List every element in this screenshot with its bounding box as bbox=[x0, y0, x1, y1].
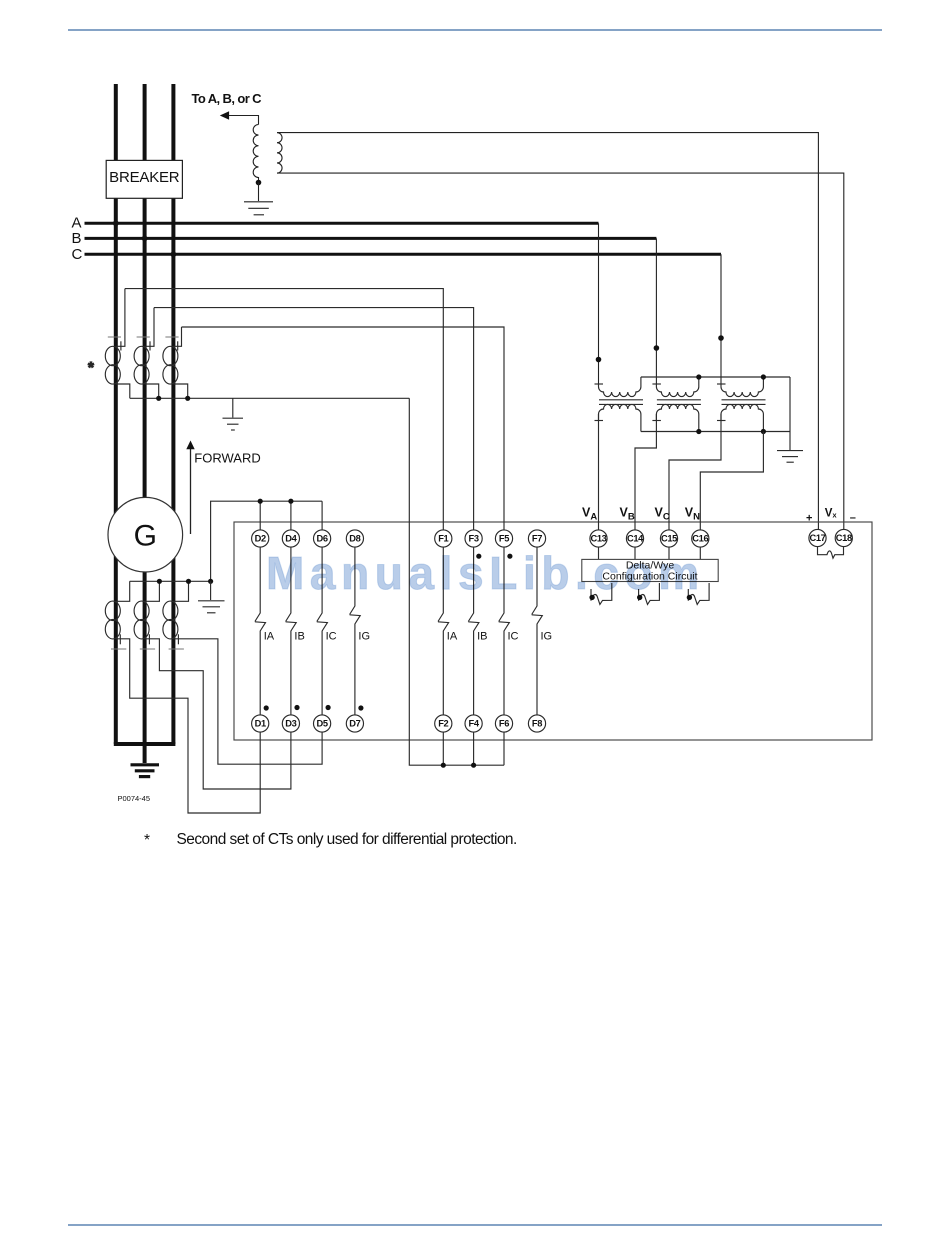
wire F4 drop bbox=[473, 732, 475, 765]
relay internal wire IC diff bbox=[317, 547, 328, 715]
svg-text:To A, B, or C: To A, B, or C bbox=[192, 91, 263, 106]
wire aux secondary top lead to C17 bbox=[277, 133, 818, 530]
aux transformer secondary winding bbox=[277, 133, 282, 173]
node T2 primary bus junction bbox=[696, 374, 701, 379]
terminal D2 bbox=[252, 530, 269, 547]
svg-text:C18: C18 bbox=[836, 533, 852, 543]
CT2 upper bus dash bbox=[137, 336, 150, 338]
wire aux secondary bottom lead to C18 bbox=[277, 173, 844, 529]
svg-text:F6: F6 bbox=[499, 719, 509, 729]
terminal D6 bbox=[314, 530, 331, 547]
wire loop CT3U to F5 bbox=[182, 327, 505, 530]
node bus A phase tap bbox=[113, 220, 119, 226]
PT primary neutral bus bbox=[641, 376, 790, 378]
node D1 polarity dot bbox=[264, 705, 269, 710]
CT1 upper bus dash bbox=[108, 336, 121, 338]
generator neutral ground symbol bbox=[131, 765, 160, 777]
CT2 lower winding bbox=[134, 601, 149, 620]
svg-text:D7: D7 bbox=[349, 719, 360, 729]
wire C15 to deltawye box bbox=[668, 547, 670, 559]
node F4 return junction bbox=[471, 763, 476, 768]
svg-text:IG: IG bbox=[541, 631, 553, 643]
C17 C18 squiggle link bbox=[818, 547, 844, 559]
node CT2L common junction bbox=[157, 579, 162, 584]
svg-text:–: – bbox=[850, 512, 856, 524]
wire lower CT ground stem bbox=[210, 581, 212, 600]
terminal D1 bbox=[252, 715, 269, 732]
svg-text:D2: D2 bbox=[255, 534, 266, 544]
wire CT2L to D3 bbox=[145, 639, 291, 789]
terminal C18 bbox=[835, 529, 852, 546]
phase line B bbox=[85, 237, 657, 240]
node lower CT ground junction bbox=[208, 579, 213, 584]
svg-text:VN: VN bbox=[685, 506, 700, 523]
wire lower CT common bbox=[130, 580, 211, 582]
deltawye output squiggle 1 bbox=[591, 583, 612, 604]
wire CT1U bottom lead bbox=[116, 384, 130, 398]
generator G circle bbox=[108, 497, 183, 572]
relay internal wire IB diff bbox=[286, 547, 297, 715]
node D3 polarity dot bbox=[294, 705, 299, 710]
svg-text:IG: IG bbox=[358, 631, 370, 643]
svg-text:F8: F8 bbox=[532, 719, 542, 729]
svg-text:F7: F7 bbox=[532, 534, 542, 544]
CT3 lower bus dash bbox=[169, 648, 184, 650]
forward arrowhead bbox=[186, 441, 194, 450]
terminal F2 bbox=[435, 715, 452, 732]
CT1 lower winding bbox=[105, 601, 120, 620]
node F3 polarity dot bbox=[476, 554, 481, 559]
svg-text:IB: IB bbox=[294, 631, 304, 643]
transformer T1 primary winding bbox=[599, 377, 641, 397]
relay internal wire IC fwd bbox=[499, 547, 510, 715]
wire T1 secondary to C13 bbox=[598, 414, 600, 530]
transformer T1 tick primary bbox=[595, 383, 604, 385]
terminal F3 bbox=[465, 530, 482, 547]
transformer T3 tick secondary bbox=[717, 420, 726, 422]
node D2 common junction bbox=[258, 499, 263, 504]
wire D2-D4-D6 common bbox=[211, 501, 323, 581]
node D7 polarity dot bbox=[358, 705, 363, 710]
CT1 upper lead tick bbox=[120, 341, 122, 350]
transformer T3 tick primary bbox=[717, 383, 726, 385]
svg-text:Second set of CTs only used fo: Second set of CTs only used for differen… bbox=[177, 831, 517, 848]
transformer T3 primary winding bbox=[721, 377, 763, 397]
wire F2 drop bbox=[442, 732, 444, 765]
svg-text:F3: F3 bbox=[469, 534, 479, 544]
terminal C15 bbox=[660, 530, 677, 547]
footer rule bbox=[68, 1224, 882, 1226]
terminal D7 bbox=[346, 715, 363, 732]
CT3 lower lead tick bbox=[177, 634, 179, 644]
terminal C13 bbox=[590, 530, 607, 547]
terminal C16 bbox=[692, 530, 709, 547]
watermark ManualsLib.com bbox=[266, 546, 705, 600]
node T3 primary bus junction bbox=[761, 374, 766, 379]
svg-text:C: C bbox=[72, 246, 83, 263]
wire aux primary to ground bbox=[258, 183, 260, 202]
CT2 lower lead tick bbox=[148, 634, 150, 644]
ground upper CT common bbox=[223, 417, 244, 419]
svg-text:D4: D4 bbox=[285, 534, 297, 544]
ground aux transformer bbox=[244, 201, 273, 203]
svg-text:P0074-45: P0074-45 bbox=[118, 794, 151, 803]
wire aux arrow line bbox=[229, 116, 259, 125]
node bus B phase tap bbox=[142, 236, 148, 242]
svg-text:IA: IA bbox=[447, 631, 458, 643]
wire T2 secondary to C14 bbox=[635, 414, 656, 530]
wire CT1L top lead bbox=[116, 581, 130, 601]
node T2 secondary bus junction bbox=[696, 429, 701, 434]
wire D4 riser bbox=[290, 501, 292, 530]
terminal F6 bbox=[495, 715, 512, 732]
node T3 secondary bus junction bbox=[761, 429, 766, 434]
wire CT1L to D1 bbox=[116, 639, 260, 813]
node PT feeder A dot bbox=[596, 357, 602, 363]
wire upper CT common bbox=[130, 397, 410, 399]
svg-text:FORWARD: FORWARD bbox=[194, 450, 260, 465]
wire F6 drop bbox=[503, 732, 505, 765]
relay internal wire IG fwd bbox=[532, 547, 543, 715]
transformer T1 tick secondary bbox=[595, 420, 604, 422]
node CT3U common junction bbox=[185, 396, 190, 401]
wire PT neutral ground drop bbox=[789, 377, 791, 450]
wire PT feeder C bbox=[720, 254, 722, 384]
wire upper CT common return to F side bbox=[409, 398, 504, 765]
phase line C bbox=[85, 253, 722, 256]
node PT feeder B dot bbox=[654, 345, 660, 351]
svg-text:IB: IB bbox=[477, 631, 487, 643]
wire PT feeder B bbox=[655, 238, 657, 384]
terminal F7 bbox=[528, 530, 545, 547]
breaker box bbox=[106, 160, 182, 198]
svg-text:F5: F5 bbox=[499, 534, 509, 544]
transformer T3 secondary winding bbox=[721, 404, 763, 431]
CT2 upper winding bbox=[134, 346, 149, 365]
deltawye output squiggle 2 bbox=[639, 583, 660, 604]
wire CT3L to D5 bbox=[173, 639, 322, 764]
wire CT2U bottom lead bbox=[145, 384, 159, 398]
svg-text:F2: F2 bbox=[438, 719, 448, 729]
ground PT neutral bbox=[777, 450, 803, 452]
terminal F1 bbox=[435, 530, 452, 547]
wire PT feeder A bbox=[598, 223, 600, 384]
terminal C17 bbox=[809, 529, 826, 546]
node D4 common junction bbox=[288, 499, 293, 504]
svg-text:D3: D3 bbox=[285, 719, 296, 729]
wire upper CT ground stem bbox=[232, 398, 234, 417]
CT1 lower bus dash bbox=[111, 648, 126, 650]
wire loop CT2U to F3 bbox=[154, 308, 474, 530]
deltawye output squiggle 3 bbox=[688, 583, 709, 604]
transformer T2 primary winding bbox=[656, 377, 698, 397]
terminal F8 bbox=[528, 715, 545, 732]
svg-text:Vx: Vx bbox=[825, 507, 837, 519]
wire C14 to deltawye box bbox=[634, 547, 636, 559]
wire D2 riser bbox=[259, 501, 261, 530]
relay box bbox=[234, 522, 872, 740]
forward arrow shaft bbox=[190, 448, 192, 534]
wire C16 to deltawye box bbox=[699, 547, 701, 559]
transformer T2 core bbox=[657, 399, 701, 401]
svg-text:BREAKER: BREAKER bbox=[109, 169, 180, 186]
CT3 upper winding bbox=[163, 346, 178, 365]
generator neutral ground stem bbox=[143, 744, 147, 763]
header rule bbox=[68, 29, 882, 31]
relay internal wire IG diff bbox=[350, 547, 361, 715]
svg-text:C15: C15 bbox=[661, 534, 677, 544]
node F5 polarity dot bbox=[507, 554, 512, 559]
svg-text:C16: C16 bbox=[692, 534, 708, 544]
terminal F4 bbox=[465, 715, 482, 732]
svg-text:D1: D1 bbox=[255, 719, 266, 729]
svg-text:B: B bbox=[72, 230, 82, 247]
node F2 return junction bbox=[441, 763, 446, 768]
svg-text:IC: IC bbox=[508, 631, 519, 643]
svg-text:VA: VA bbox=[582, 506, 597, 523]
bus phase A bbox=[114, 84, 118, 744]
relay internal wire IA diff bbox=[255, 547, 266, 715]
svg-text:F4: F4 bbox=[469, 719, 480, 729]
CT2 upper lead tick bbox=[149, 341, 151, 350]
wire CT3U top lead riser bbox=[173, 327, 181, 346]
svg-text:IA: IA bbox=[264, 631, 275, 643]
CT1 lower lead tick bbox=[119, 634, 121, 644]
delta wye configuration box bbox=[582, 559, 718, 581]
node CT2U common junction bbox=[156, 396, 161, 401]
relay internal wire IB fwd bbox=[468, 547, 479, 715]
wire CT1U top lead riser bbox=[116, 289, 125, 347]
CT1 upper winding bbox=[105, 346, 120, 365]
svg-text:VB: VB bbox=[620, 506, 635, 523]
svg-text:IC: IC bbox=[326, 631, 337, 643]
wire CT2U top lead riser bbox=[145, 308, 154, 347]
terminal F5 bbox=[495, 530, 512, 547]
wire C13 to deltawye box bbox=[598, 547, 600, 559]
terminal D3 bbox=[282, 715, 299, 732]
CT3 lower winding bbox=[163, 601, 178, 620]
relay internal wire IA fwd bbox=[438, 547, 449, 715]
wire CT2L top lead bbox=[145, 581, 160, 601]
svg-text:*: * bbox=[144, 832, 150, 849]
bus phase B bbox=[143, 84, 147, 744]
wire T3 secondary to C15 bbox=[669, 414, 721, 530]
ground lower CT common bbox=[198, 600, 225, 602]
CT3 upper bus dash bbox=[165, 336, 178, 338]
CT2 lower bus dash bbox=[140, 648, 155, 650]
transformer T1 secondary winding bbox=[599, 404, 641, 431]
bus phase C bbox=[171, 84, 175, 744]
node D5 polarity dot bbox=[326, 705, 331, 710]
CT3 upper lead tick bbox=[177, 341, 179, 350]
aux transformer primary winding bbox=[253, 125, 258, 183]
svg-text:C14: C14 bbox=[627, 534, 644, 544]
wire D6 riser bbox=[321, 501, 323, 530]
svg-text:C17: C17 bbox=[809, 533, 825, 543]
svg-text:D6: D6 bbox=[317, 534, 328, 544]
PT secondary neutral bus bbox=[641, 431, 790, 433]
svg-text:VC: VC bbox=[655, 506, 670, 523]
svg-text:D8: D8 bbox=[349, 534, 360, 544]
svg-text:*: * bbox=[88, 359, 94, 376]
wire loop CT1U to F1 bbox=[125, 289, 443, 530]
node bus C phase tap bbox=[171, 251, 177, 257]
terminal D5 bbox=[314, 715, 331, 732]
node aux primary-ground junction bbox=[256, 180, 262, 186]
transformer T2 tick primary bbox=[652, 383, 661, 385]
svg-text:D5: D5 bbox=[317, 719, 328, 729]
wire CT3L top lead bbox=[173, 581, 188, 601]
wire PT neutral to C16 bbox=[700, 432, 763, 530]
transformer T1 core bbox=[599, 399, 643, 401]
aux arrowhead bbox=[220, 111, 229, 120]
generator neutral tie bar bbox=[114, 742, 176, 746]
node CT3L common junction bbox=[186, 579, 191, 584]
svg-text:+: + bbox=[806, 513, 812, 525]
svg-text:F1: F1 bbox=[438, 534, 448, 544]
node PT feeder C dot bbox=[718, 335, 724, 341]
transformer T2 tick secondary bbox=[652, 420, 661, 422]
wire CT3U bottom lead bbox=[173, 384, 187, 398]
terminal D8 bbox=[346, 530, 363, 547]
svg-text:C13: C13 bbox=[590, 534, 606, 544]
svg-text:G: G bbox=[134, 520, 157, 553]
terminal C14 bbox=[626, 530, 643, 547]
transformer T3 core bbox=[722, 399, 766, 401]
terminal D4 bbox=[282, 530, 299, 547]
transformer T2 secondary winding bbox=[656, 404, 698, 431]
phase line A bbox=[85, 222, 599, 225]
